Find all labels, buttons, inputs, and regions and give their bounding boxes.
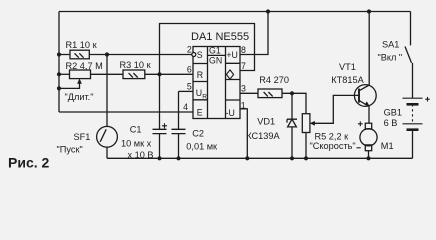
- svg-text:GB1: GB1: [384, 107, 402, 117]
- svg-text:8: 8: [241, 45, 246, 55]
- svg-text:"Скорость": "Скорость": [310, 141, 356, 151]
- wire pin 5 row: [179, 90, 194, 92]
- wire R3 right to chip pin 6 R: [145, 73, 193, 75]
- pin 2 inversion circle: [192, 53, 196, 57]
- svg-text:R: R: [197, 70, 203, 80]
- svg-text:"Пуск": "Пуск": [57, 144, 83, 154]
- svg-text:0,01 мк: 0,01 мк: [186, 141, 218, 151]
- svg-text:U: U: [196, 88, 202, 98]
- svg-text:3: 3: [241, 84, 246, 94]
- svg-text:E: E: [197, 108, 203, 118]
- wiper of R2: [59, 83, 80, 89]
- svg-text:VT1: VT1: [339, 62, 356, 72]
- svg-text:6 В: 6 В: [384, 118, 398, 128]
- svg-text:DA1 NE555: DA1 NE555: [191, 31, 249, 43]
- svg-text:R5 2,2 к: R5 2,2 к: [315, 131, 350, 141]
- wire pin 1 -U to ground: [240, 109, 247, 159]
- svg-text:КТ815А: КТ815А: [331, 75, 364, 85]
- svg-text:C1: C1: [130, 124, 142, 134]
- svg-text:R2 4,7 М: R2 4,7 М: [66, 61, 103, 71]
- svg-text:"Вкл ": "Вкл ": [378, 53, 403, 63]
- svg-text:-U: -U: [226, 108, 235, 118]
- svg-text:"Длит.": "Длит.": [65, 92, 94, 102]
- zener diode VD1 KC139A: [291, 93, 293, 119]
- svg-text:Рис. 2: Рис. 2: [8, 154, 50, 170]
- wiper of R5 to VT1 base: [314, 95, 359, 123]
- svg-text:10 мк х: 10 мк х: [121, 138, 152, 148]
- resistor R1: [59, 54, 70, 56]
- svg-text:C2: C2: [192, 128, 204, 138]
- wire pin 3 output: [240, 92, 258, 94]
- wire pin4 row (left rail bottom to chip pin 4 E): [59, 111, 193, 113]
- pushbutton SF1: [97, 126, 118, 147]
- IC DA1 NE555 timer body: [193, 47, 240, 119]
- plus mark motor: [358, 121, 363, 126]
- svg-text:R: R: [202, 93, 207, 100]
- svg-text:GN: GN: [209, 55, 222, 65]
- resistor R4 270: [258, 89, 282, 98]
- wire R1 right to pin 2 S: [89, 54, 193, 56]
- wire bottom ground rail: [107, 157, 413, 159]
- svg-text:КС139А: КС139А: [246, 131, 280, 141]
- wire emitter to motor: [368, 106, 370, 123]
- wire pin 8 +U to top rail: [240, 12, 268, 55]
- wire R4 to node and to R5 top: [282, 93, 306, 113]
- svg-text:4: 4: [183, 102, 188, 112]
- svg-text:1: 1: [241, 100, 246, 110]
- node pin6/loop junction: [157, 72, 161, 76]
- wire collector to top rail: [368, 12, 370, 86]
- svg-text:VD1: VD1: [257, 117, 275, 127]
- wire loop pins 6-7 tie (up over chip) and C1 riser: [160, 24, 255, 130]
- switch SA1: [410, 12, 412, 46]
- wire left rail: [58, 12, 60, 113]
- svg-text:5: 5: [187, 82, 192, 92]
- battery GB1: [403, 97, 423, 99]
- resistor R3: [123, 70, 145, 79]
- resistor R5 (pot 2.2k speed): [302, 114, 310, 133]
- svg-text:G1: G1: [209, 46, 221, 56]
- svg-text:х 10 В: х 10 В: [128, 150, 154, 160]
- svg-text:R1 10 к: R1 10 к: [66, 40, 98, 50]
- svg-text:R4 270: R4 270: [259, 75, 289, 85]
- svg-text:R3 10 к: R3 10 к: [120, 60, 152, 70]
- transistor VT1 KT815A: [354, 85, 376, 107]
- resistor R2 (trimmer 4.7M): [59, 73, 70, 75]
- capacitor C2 (0.01u): [172, 91, 186, 158]
- svg-text:+U: +U: [226, 50, 238, 60]
- svg-text:2: 2: [187, 45, 192, 55]
- plus mark battery: [425, 97, 430, 102]
- svg-text:6: 6: [187, 64, 192, 74]
- wire top +V rail: [59, 11, 411, 13]
- svg-text:М1: М1: [381, 141, 394, 151]
- node R1 left on rail: [57, 52, 61, 56]
- svg-text:SA1: SA1: [382, 40, 399, 50]
- minus mark motor: [357, 147, 361, 149]
- svg-text:SF1: SF1: [74, 132, 91, 142]
- svg-text:S: S: [197, 50, 203, 60]
- svg-text:7: 7: [241, 61, 246, 71]
- motor M1: [365, 123, 371, 129]
- wire SF1 branch vertical (pin2 net down to button): [106, 55, 108, 127]
- node R1/pin2/SF1 junction: [105, 52, 109, 56]
- capacitor C1 (electrolytic 10u): [153, 129, 167, 133]
- diamond open-collector mark pin 7: [226, 70, 233, 79]
